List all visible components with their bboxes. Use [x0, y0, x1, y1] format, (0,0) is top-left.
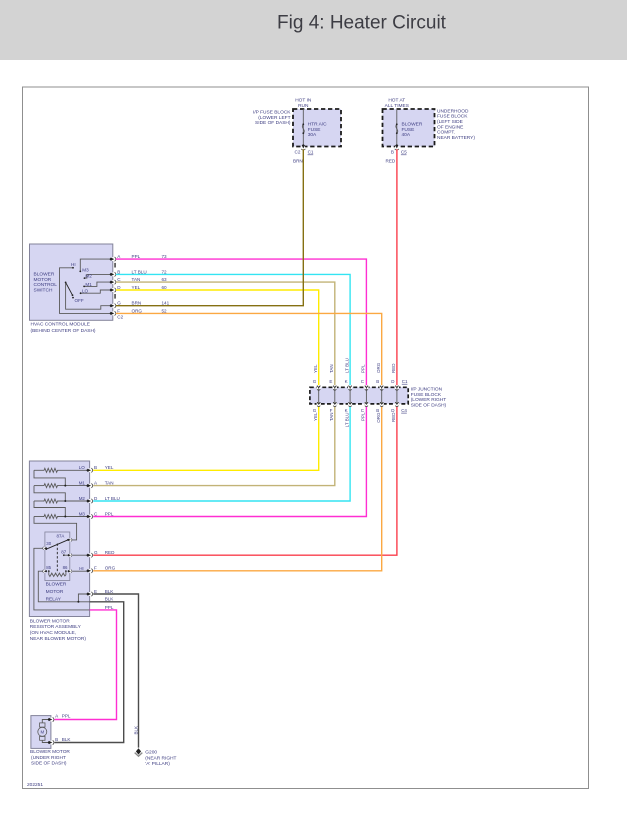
svg-text:UNDERHOOD: UNDERHOOD — [437, 108, 469, 114]
pin D of resistor assembly — [87, 499, 93, 503]
svg-text:SWITCH: SWITCH — [34, 288, 53, 294]
relay actuation dashed line — [56, 544, 58, 574]
motor M1 symbol — [40, 723, 45, 727]
wire TAN 63 (switch pin C to junction) — [116, 282, 335, 388]
svg-text:D: D — [391, 379, 395, 384]
svg-text:BLOWER MOTOR: BLOWER MOTOR — [30, 749, 70, 755]
svg-text:RED: RED — [386, 158, 396, 163]
svg-text:C: C — [361, 379, 365, 384]
wire BLK (relay 85 to blower motor pin B) — [55, 602, 124, 743]
wire LT BLU 72 (switch pin B to junction) — [116, 274, 350, 388]
svg-text:G: G — [94, 550, 98, 555]
svg-text:202251: 202251 — [27, 782, 43, 788]
pin A of resistor assembly — [87, 483, 93, 487]
svg-text:SIDE OF DASH): SIDE OF DASH) — [31, 761, 67, 767]
pin G of resistor assembly — [87, 553, 93, 557]
svg-text:RED: RED — [105, 550, 115, 555]
svg-text:HTR A/C: HTR A/C — [308, 122, 327, 128]
pin B of HVAC control module — [110, 272, 116, 276]
svg-text:I/P FUSE BLOCK: I/P FUSE BLOCK — [253, 110, 291, 116]
svg-text:C2: C2 — [117, 314, 123, 319]
pin F of HVAC control module — [110, 311, 116, 315]
fuse BLOWER FUSE 40A — [396, 124, 398, 133]
tap junction dots — [64, 485, 66, 487]
svg-text:PPL: PPL — [132, 254, 141, 259]
resistor R4 — [34, 516, 43, 518]
svg-text:BLK: BLK — [105, 589, 115, 594]
svg-text:TAN: TAN — [329, 364, 334, 373]
svg-text:TAN: TAN — [105, 481, 114, 486]
resistor R3 — [34, 500, 43, 502]
svg-text:PPL: PPL — [105, 511, 114, 516]
svg-text:G: G — [313, 379, 317, 384]
svg-text:RED: RED — [391, 412, 396, 422]
svg-text:HI: HI — [79, 566, 84, 571]
svg-text:BLOWER MOTOR: BLOWER MOTOR — [30, 618, 70, 624]
HVAC control module box — [30, 244, 113, 320]
svg-text:I/P JUNCTION: I/P JUNCTION — [411, 387, 443, 393]
svg-text:B: B — [55, 737, 58, 742]
svg-text:BLOWER: BLOWER — [46, 582, 67, 588]
junction block pass-through TAN — [333, 385, 337, 389]
svg-text:M1: M1 — [85, 282, 92, 287]
svg-text:86: 86 — [63, 565, 68, 570]
svg-text:C: C — [94, 511, 98, 516]
resistor R2 — [34, 485, 43, 487]
svg-text:B: B — [376, 379, 379, 384]
svg-text:73: 73 — [162, 254, 168, 259]
wire relay 85 to BLK exit — [38, 571, 89, 602]
wire: M1 contact to pin C — [84, 282, 113, 286]
svg-text:52: 52 — [162, 308, 168, 313]
pin B of resistor assembly — [87, 468, 93, 472]
svg-text:FUSE: FUSE — [308, 127, 321, 133]
svg-text:ORG: ORG — [105, 566, 116, 571]
connector bar C2 (between pins D and G) — [114, 294, 115, 299]
svg-text:CONTROL: CONTROL — [34, 282, 58, 288]
fuse HTR A/C FUSE 30A — [302, 124, 304, 133]
pin B of blower motor — [48, 740, 54, 744]
svg-text:40A: 40A — [402, 132, 411, 138]
svg-text:SIDE OF DASH): SIDE OF DASH) — [255, 120, 291, 126]
svg-text:RUN: RUN — [298, 103, 309, 109]
title bar — [0, 0, 627, 60]
fuse block: I/P fuse block (dashed box) — [293, 109, 341, 147]
wire PPL (relay 30 to blower motor pin A) — [55, 610, 117, 720]
svg-text:141: 141 — [162, 301, 170, 306]
svg-text:(NEAR RIGHT: (NEAR RIGHT — [145, 756, 176, 762]
connector C2/C1 at fuse exit — [301, 144, 305, 150]
blower motor relay box — [45, 532, 70, 581]
svg-text:M: M — [40, 730, 44, 735]
svg-text:LT BLU: LT BLU — [132, 269, 147, 274]
wire: wiper pivot rail to pin G — [66, 282, 113, 309]
wire LT BLU (junction to resistor pin D) — [93, 403, 350, 501]
svg-text:ORG: ORG — [132, 308, 143, 313]
svg-text:FUSE BLOCK: FUSE BLOCK — [437, 114, 468, 120]
svg-text:LO: LO — [82, 288, 89, 293]
svg-text:BRN: BRN — [293, 158, 303, 163]
svg-text:HOT IN: HOT IN — [295, 97, 312, 103]
wire ORG 52 (switch pin F to junction) — [116, 313, 382, 388]
wire PPL 73 (switch pin A to junction) — [116, 259, 367, 388]
svg-text:D: D — [117, 285, 121, 290]
relay armature (30 to 87A) — [46, 540, 68, 549]
svg-text:F: F — [94, 566, 97, 571]
svg-text:E: E — [94, 589, 97, 594]
svg-text:LT BLU: LT BLU — [105, 496, 120, 501]
svg-text:B: B — [117, 269, 120, 274]
svg-text:FUSE: FUSE — [402, 127, 415, 133]
svg-text:BLK: BLK — [133, 726, 138, 735]
svg-text:85: 85 — [46, 565, 51, 570]
blower motor box — [31, 716, 51, 749]
svg-text:M2: M2 — [79, 496, 86, 501]
wire: M3 contact to pin A — [80, 259, 113, 271]
svg-text:COMPT.: COMPT. — [437, 130, 455, 136]
pin G of HVAC control module — [110, 304, 116, 308]
blower motor resistor assembly box — [29, 461, 89, 617]
wire motor to pin B — [42, 740, 51, 742]
svg-text:YEL: YEL — [313, 364, 318, 373]
switch contact LO — [80, 292, 82, 294]
svg-text:(LOWER RIGHT: (LOWER RIGHT — [411, 397, 447, 403]
svg-text:(BEHIND CENTER OF DASH): (BEHIND CENTER OF DASH) — [31, 328, 96, 334]
svg-text:LO: LO — [79, 465, 86, 470]
wire: LO contact to pin D — [81, 290, 113, 293]
fuse block: underhood fuse block (dashed box) — [383, 109, 435, 147]
svg-text:(LOWER LEFT: (LOWER LEFT — [258, 115, 290, 121]
wire jog M1 row to M2 tap — [34, 486, 65, 501]
svg-text:ALL TIMES: ALL TIMES — [385, 103, 409, 109]
svg-text:C1: C1 — [308, 150, 314, 155]
svg-text:BRN: BRN — [132, 301, 142, 306]
svg-text:C4: C4 — [401, 408, 407, 413]
pin E of resistor assembly — [87, 592, 93, 596]
wire jog M2 row to M3 tap — [34, 501, 65, 517]
wire PPL (junction to resistor pin C) — [93, 403, 366, 517]
wire TAN (junction to resistor pin A) — [93, 403, 335, 486]
svg-text:OFF: OFF — [75, 298, 84, 303]
svg-text:A: A — [55, 714, 59, 719]
junction block pass-through RED — [395, 385, 399, 389]
schematic border frame — [23, 87, 589, 789]
junction block pass-through ORG — [380, 385, 384, 389]
svg-text:NEAR BATTERY): NEAR BATTERY) — [437, 135, 475, 141]
svg-text:D: D — [94, 496, 98, 501]
wire motor to pin A — [42, 720, 51, 723]
svg-text:MOTOR: MOTOR — [46, 589, 64, 595]
junction block pass-through YEL — [317, 385, 321, 389]
svg-text:K: K — [345, 379, 348, 384]
svg-text:87A: 87A — [57, 533, 65, 538]
svg-text:C: C — [117, 277, 121, 282]
svg-text:OF ENGINE: OF ENGINE — [437, 124, 463, 130]
svg-text:RESISTOR ASSEMBLY: RESISTOR ASSEMBLY — [30, 624, 82, 630]
svg-text:YEL: YEL — [105, 465, 114, 470]
svg-text:B: B — [376, 408, 379, 413]
svg-text:B: B — [94, 465, 97, 470]
svg-text:A: A — [117, 254, 121, 259]
svg-text:(UNDER RIGHT: (UNDER RIGHT — [31, 755, 66, 761]
svg-text:C5: C5 — [401, 150, 407, 155]
wire relay 30 to PPL exit — [34, 548, 90, 610]
svg-text:Fig 4: Heater Circuit: Fig 4: Heater Circuit — [277, 12, 447, 33]
wire: HI contact to pin F rail — [60, 268, 113, 314]
svg-text:63: 63 — [162, 277, 168, 282]
svg-text:MOTOR: MOTOR — [34, 277, 52, 283]
switch contact OFF — [72, 297, 74, 299]
relay coil — [48, 570, 50, 572]
svg-text:RELAY: RELAY — [46, 596, 62, 602]
wire YEL (junction to resistor pin B) — [93, 403, 319, 470]
svg-text:YEL: YEL — [313, 412, 318, 421]
wire jog LO row to M1 tap — [34, 470, 65, 485]
svg-text:M1: M1 — [79, 481, 86, 486]
svg-text:C2: C2 — [295, 150, 301, 155]
svg-text:M3: M3 — [82, 267, 89, 272]
I/P junction fuse block (dashed box) — [310, 387, 408, 404]
svg-text:C: C — [361, 408, 365, 413]
svg-text:HVAC CONTROL MODULE: HVAC CONTROL MODULE — [31, 322, 90, 328]
wire RED (blower fuse to junction to relay pin G) — [93, 149, 397, 555]
svg-text:BLOWER: BLOWER — [34, 271, 55, 277]
wire BRN 141 (fuse C1 to switch pin G) — [116, 149, 303, 306]
svg-text:(ON HVAC MODULE,: (ON HVAC MODULE, — [30, 630, 76, 636]
pin C of HVAC control module — [110, 280, 116, 284]
connector B/C5 at fuse exit — [395, 144, 399, 150]
svg-text:60: 60 — [162, 285, 168, 290]
svg-text:PPL: PPL — [62, 714, 71, 719]
svg-text:PPL: PPL — [105, 605, 114, 610]
junction block pass-through PPL — [364, 385, 368, 389]
svg-text:87: 87 — [61, 549, 66, 554]
switch contact M3 — [79, 271, 81, 273]
svg-text:M2: M2 — [85, 273, 92, 278]
wire YEL 60 (switch pin D to junction) — [116, 290, 319, 388]
switch contact M1 — [83, 286, 85, 288]
svg-text:G: G — [313, 408, 317, 413]
svg-text:M3: M3 — [79, 511, 86, 516]
svg-text:F: F — [117, 308, 120, 313]
svg-text:C1: C1 — [402, 379, 408, 384]
wire BLK (pin E to ground G200) — [93, 594, 138, 748]
svg-text:TAN: TAN — [132, 277, 141, 282]
connector bar C2 (between pins A and B) — [114, 263, 115, 268]
junction block pass-through LT BLU — [348, 385, 352, 389]
pin D of HVAC control module — [110, 288, 116, 292]
svg-text:BLK: BLK — [62, 737, 72, 742]
svg-text:(LEFT SIDE: (LEFT SIDE — [437, 119, 463, 125]
switch contact M2 — [84, 277, 86, 279]
pin F of resistor assembly — [87, 569, 93, 573]
svg-text:HI: HI — [71, 262, 76, 267]
svg-text:HOT AT: HOT AT — [388, 97, 405, 103]
pin A of blower motor — [48, 717, 54, 721]
switch wiper arm — [66, 282, 73, 295]
svg-text:'A' PILLAR): 'A' PILLAR) — [145, 761, 170, 767]
switch contact HI — [72, 267, 74, 269]
svg-text:NEAR BLOWER MOTOR): NEAR BLOWER MOTOR) — [30, 636, 87, 642]
svg-text:PPL: PPL — [361, 412, 366, 421]
svg-text:K: K — [345, 408, 348, 413]
svg-text:SIDE OF DASH): SIDE OF DASH) — [411, 403, 447, 409]
svg-text:30: 30 — [46, 541, 51, 546]
ground G200 symbol — [136, 748, 141, 754]
svg-text:PPL: PPL — [361, 364, 366, 373]
svg-text:FUSE BLOCK: FUSE BLOCK — [411, 392, 442, 398]
svg-text:30A: 30A — [308, 132, 317, 138]
svg-text:LT BLU: LT BLU — [344, 413, 349, 428]
svg-text:BLOWER: BLOWER — [402, 122, 423, 128]
wire: M2 contact to pin B — [85, 274, 113, 278]
pin C of resistor assembly — [87, 514, 93, 518]
svg-text:G: G — [117, 301, 121, 306]
svg-text:RED: RED — [391, 363, 396, 373]
pin A of HVAC control module — [110, 257, 116, 261]
svg-text:TAN: TAN — [329, 413, 334, 422]
wire inside fuse block — [302, 109, 304, 147]
svg-text:LT BLU: LT BLU — [344, 358, 349, 373]
svg-text:YEL: YEL — [132, 285, 141, 290]
svg-text:F: F — [330, 408, 333, 413]
wire inside fuse block — [396, 109, 398, 147]
wire pin E internal — [78, 594, 89, 602]
resistor R1 — [34, 469, 43, 471]
wire ORG (junction to resistor pin F) — [93, 403, 382, 571]
svg-text:E: E — [329, 379, 332, 384]
svg-text:D: D — [391, 408, 395, 413]
svg-text:ORG: ORG — [376, 412, 381, 423]
wire jog M3 row to relay 87A — [34, 517, 77, 540]
svg-text:72: 72 — [162, 269, 168, 274]
svg-text:ORG: ORG — [376, 362, 381, 373]
svg-text:BLK: BLK — [105, 597, 115, 602]
svg-text:B: B — [391, 150, 394, 155]
svg-text:A: A — [94, 481, 98, 486]
svg-text:G200: G200 — [145, 749, 157, 755]
